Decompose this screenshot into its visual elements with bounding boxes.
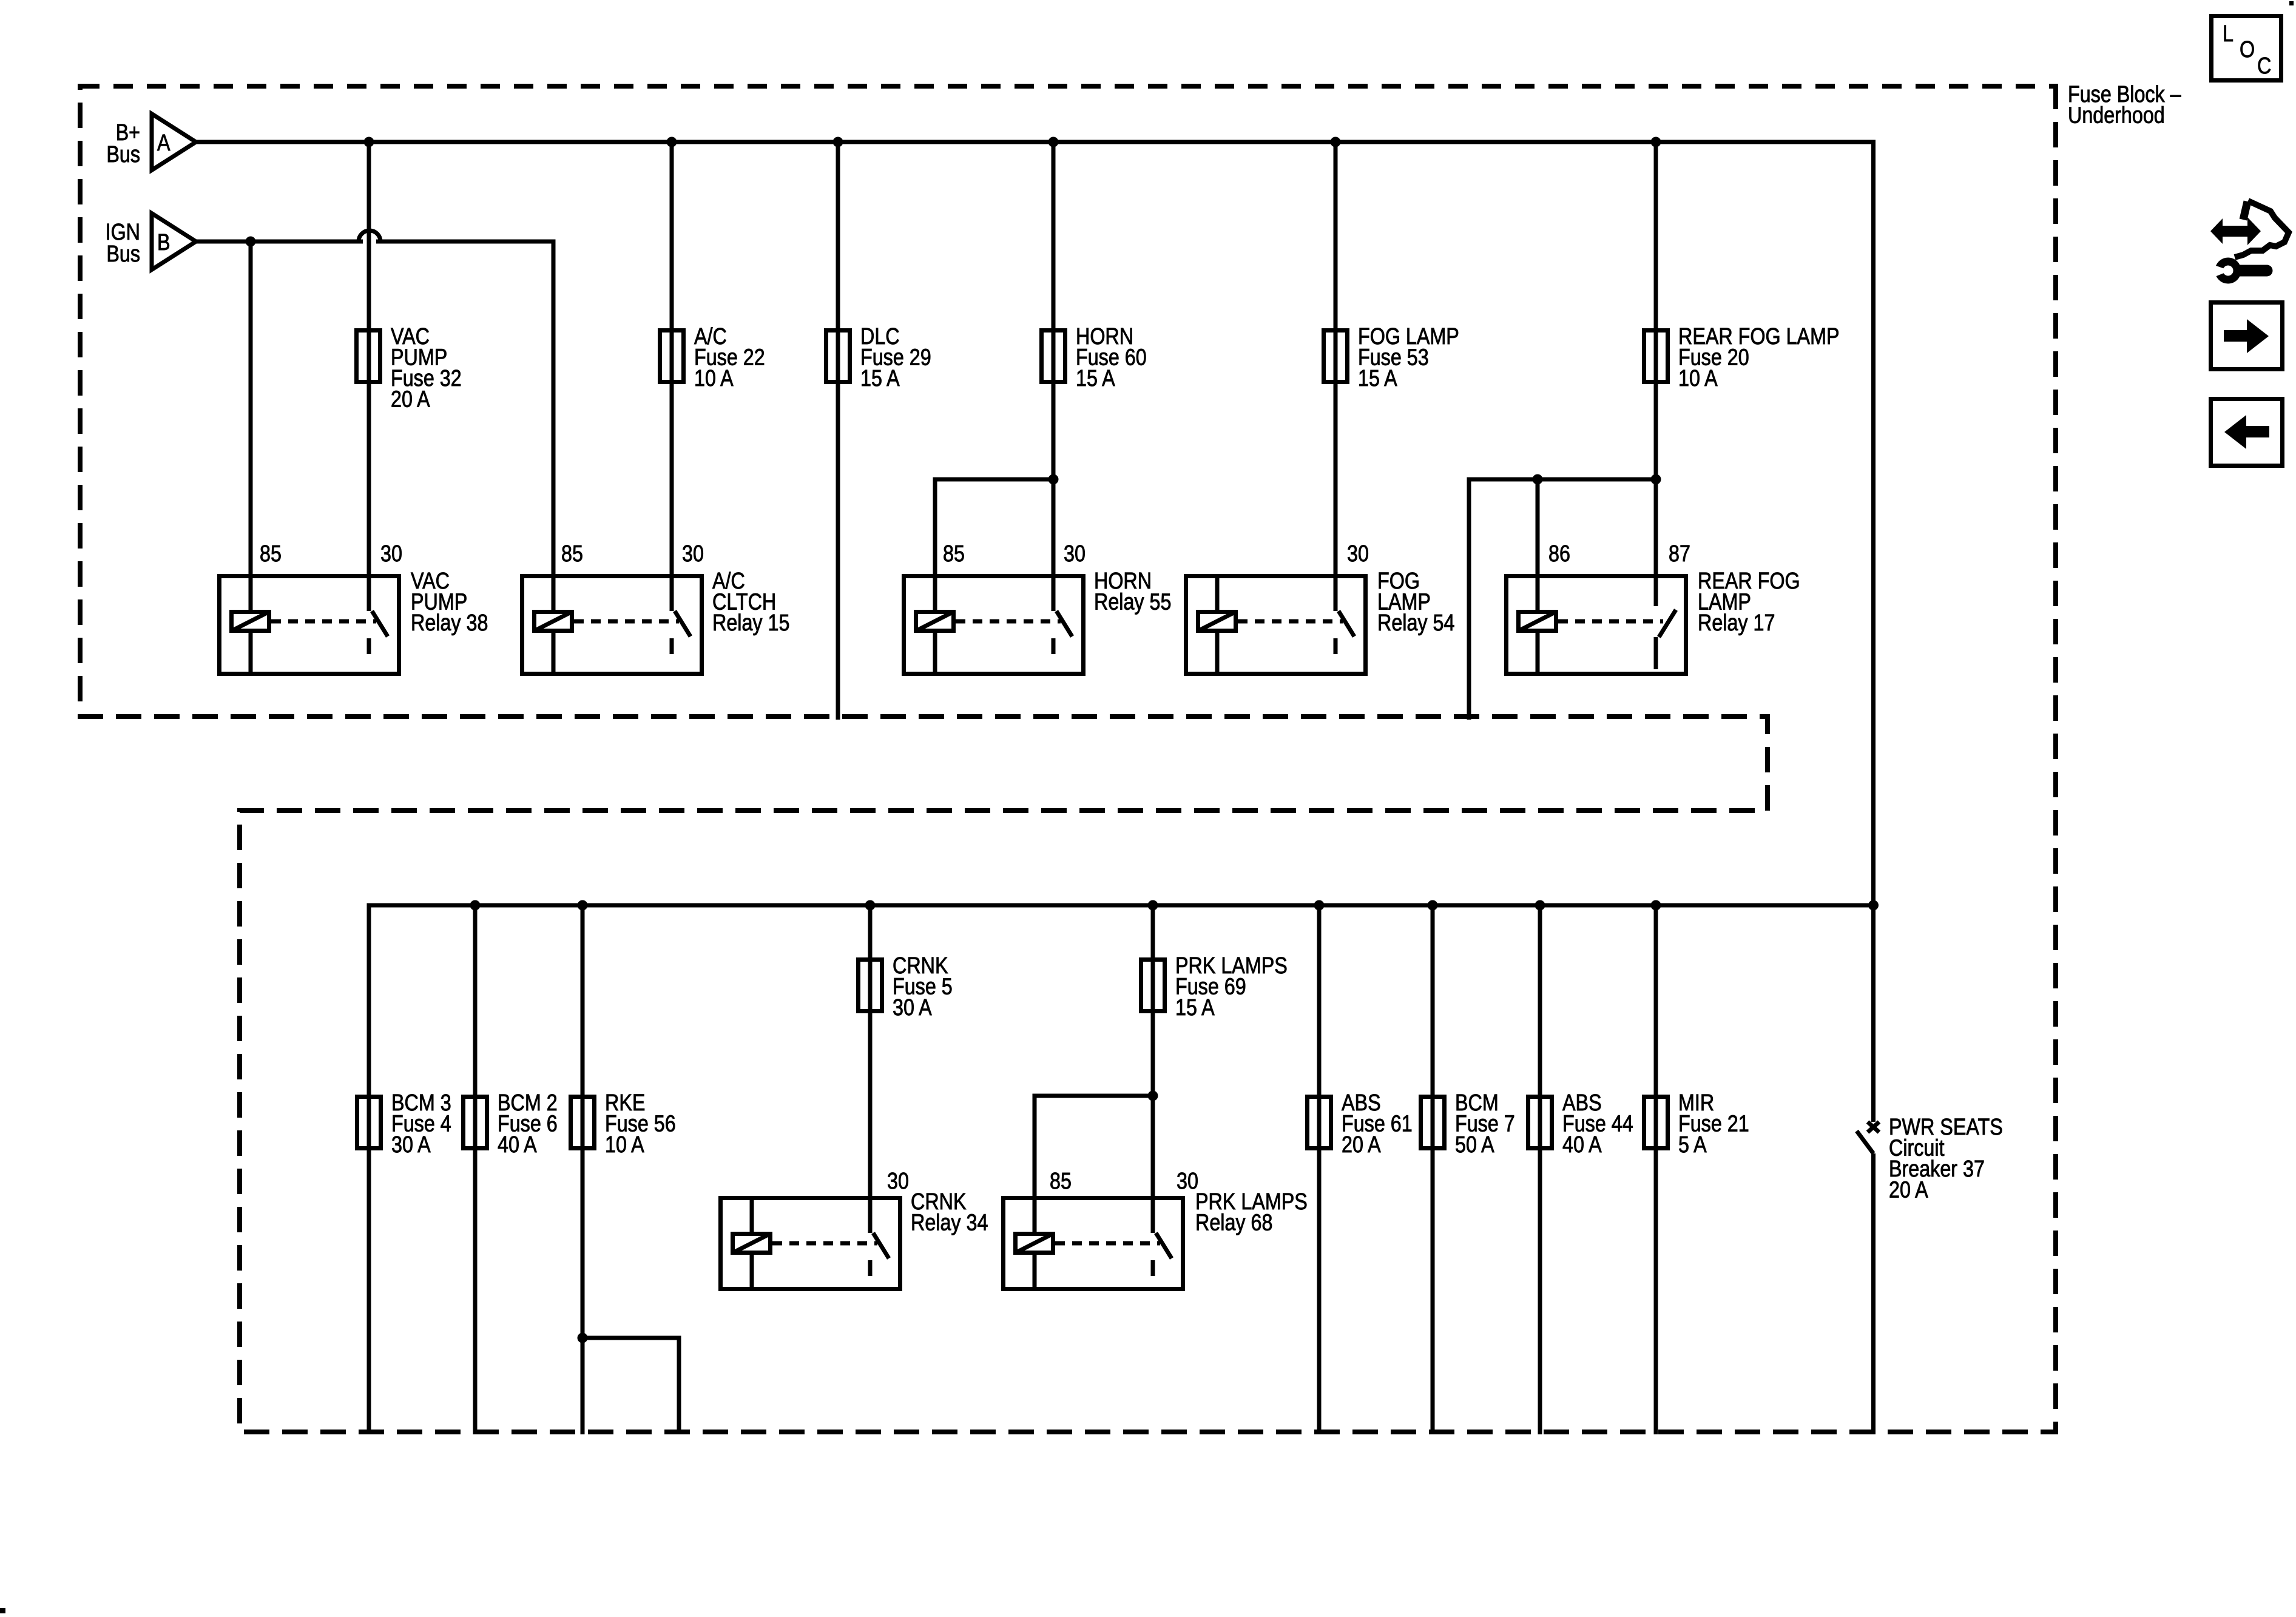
wire IGN branch down to VAC relay pin 85	[249, 241, 253, 574]
svg-text:50 A: 50 A	[1455, 1132, 1494, 1158]
fuse HORN Fuse 60	[1042, 331, 1065, 382]
wire BCM3 drop	[367, 905, 371, 1434]
breaker blade	[1857, 1131, 1874, 1153]
wire REAR FOG drop	[1654, 142, 1658, 574]
relay HORN Relay 55	[904, 576, 1084, 674]
fuse REAR FOG LAMP Fuse 20	[1644, 331, 1668, 382]
relay REAR FOG LAMP Relay 17	[1507, 576, 1686, 674]
wire B+ bus horizontal	[194, 140, 1876, 144]
wire B+ bus right vertical drop	[1871, 142, 1876, 908]
svg-text:B: B	[157, 230, 171, 255]
svg-text:Relay 15: Relay 15	[712, 610, 789, 636]
wire HORN drop	[1052, 142, 1056, 574]
fuse CRNK Fuse 5	[859, 960, 882, 1011]
relay FOG LAMP Relay 54	[1186, 576, 1366, 674]
svg-text:30: 30	[380, 541, 402, 567]
wire REAR FOG branch horizontal	[1467, 478, 1656, 482]
LOC box	[2212, 16, 2281, 81]
fuse ABS Fuse 44	[1528, 1097, 1552, 1149]
svg-text:40 A: 40 A	[498, 1132, 537, 1158]
svg-text:15 A: 15 A	[1175, 995, 1215, 1021]
fuse A/C Fuse 22	[660, 331, 684, 382]
junction dot CRNK	[865, 900, 876, 911]
svg-text:15 A: 15 A	[860, 366, 900, 391]
junction dot B+ DLC drop	[833, 137, 843, 147]
wire DLC drop	[836, 142, 840, 720]
wire breaker lower	[1871, 1153, 1876, 1434]
svg-text:A: A	[157, 130, 171, 156]
node B triangle (IGN Bus)	[152, 214, 196, 270]
fuse block underhood dashed border	[80, 84, 2056, 1432]
svg-text:Relay 17: Relay 17	[1698, 610, 1775, 636]
junction dot B+ VAC drop	[364, 137, 374, 147]
junction dot REAR FOG relay coil branch	[1533, 474, 1543, 485]
relay CRNK Relay 34	[721, 1198, 900, 1289]
svg-text:Relay 68: Relay 68	[1195, 1210, 1272, 1235]
wire PRK branch down to relay pin 85	[1033, 1096, 1037, 1196]
wire A/C drop	[670, 142, 674, 574]
svg-text:10 A: 10 A	[1678, 366, 1718, 391]
fuse MIR Fuse 21	[1644, 1097, 1668, 1149]
fuse VAC PUMP Fuse 32	[357, 331, 380, 382]
junction dot IGN-VAC relay branch	[246, 237, 256, 247]
wire RKE drop	[581, 905, 585, 1434]
svg-text:20 A: 20 A	[391, 387, 430, 412]
wire FOG drop	[1334, 142, 1338, 574]
svg-text:30: 30	[682, 541, 704, 567]
wire BCM2 drop	[473, 905, 478, 1434]
svg-text:15 A: 15 A	[1076, 366, 1115, 391]
wire PRK branch horizontal	[1033, 1094, 1153, 1098]
svg-text:86: 86	[1548, 541, 1570, 567]
svg-text:85: 85	[260, 541, 282, 567]
right arrow	[2224, 319, 2269, 353]
service icon wrench	[2219, 262, 2237, 280]
wire ABS44 drop	[1538, 905, 1542, 1434]
wire bottom B+ bus	[367, 903, 1876, 908]
fuse RKE Fuse 56	[571, 1097, 595, 1149]
svg-text:85: 85	[943, 541, 965, 567]
service icon hood outline	[2235, 201, 2289, 257]
svg-text:Relay 55: Relay 55	[1094, 589, 1171, 615]
relay A/C CLTCH Relay 15	[522, 576, 702, 674]
wire PRK drop	[1151, 905, 1155, 1196]
wire HORN branch horizontal	[933, 478, 1054, 482]
junction dot ABS44	[1535, 900, 1545, 911]
wire VAC drop	[367, 142, 371, 574]
fuse PRK LAMPS Fuse 69	[1141, 960, 1165, 1011]
breaker contact x-mark	[1868, 1122, 1879, 1132]
junction dot B+ A/C drop	[667, 137, 677, 147]
svg-text:30: 30	[1347, 541, 1369, 567]
left arrow box	[2211, 399, 2283, 466]
wire RKE branch down	[677, 1338, 681, 1434]
junction dot B+ FOG drop	[1331, 137, 1341, 147]
junction dot RKE branch	[578, 1333, 588, 1343]
junction dot HORN relay branch	[1048, 474, 1059, 485]
svg-text:30: 30	[1064, 541, 1086, 567]
svg-text:10 A: 10 A	[605, 1132, 644, 1158]
svg-text:O: O	[2240, 37, 2255, 62]
fuse BCM 2 Fuse 6	[464, 1097, 487, 1149]
svg-text:30 A: 30 A	[893, 995, 932, 1021]
wire REAR FOG branch down to dashed border	[1467, 479, 1471, 720]
svg-text:30 A: 30 A	[391, 1132, 431, 1158]
right arrow box	[2211, 303, 2283, 370]
corner artifact dot bottom left	[0, 1608, 5, 1613]
wire hop over VAC drop	[359, 231, 380, 241]
wire breaker feed	[1871, 905, 1876, 1122]
junction dot ABS61	[1314, 900, 1325, 911]
fuse BCM Fuse 7	[1421, 1097, 1445, 1149]
svg-text:L: L	[2223, 21, 2234, 47]
wire IGN bus right segment	[376, 240, 556, 244]
svg-text:40 A: 40 A	[1562, 1132, 1602, 1158]
wire CRNK drop	[868, 905, 873, 1196]
fuse DLC Fuse 29	[826, 331, 850, 382]
junction dot B+ HORN drop	[1048, 137, 1059, 147]
junction dot REAR FOG branch at fuse wire	[1651, 474, 1661, 485]
svg-text:Relay 54: Relay 54	[1377, 610, 1454, 636]
left arrow	[2224, 415, 2269, 449]
fuse block underhood dashed border top edge	[80, 84, 2056, 89]
svg-text:Bus: Bus	[106, 241, 140, 267]
wire IGN turn down to A/C relay pin 85	[552, 241, 556, 574]
junction dot PRK relay coil branch	[1148, 1091, 1158, 1101]
svg-text:85: 85	[1050, 1169, 1072, 1194]
svg-text:C: C	[2257, 53, 2271, 79]
junction dot BCM7	[1428, 900, 1438, 911]
fuse FOG LAMP Fuse 53	[1324, 331, 1348, 382]
junction dot bottom bus right corner	[1868, 900, 1879, 911]
wire MIR drop	[1654, 905, 1658, 1434]
svg-text:15 A: 15 A	[1358, 366, 1397, 391]
wire REAR FOG coil branch down to pin 86	[1536, 479, 1540, 574]
junction dot PRK LAMPS	[1148, 900, 1158, 911]
wire BCM7 drop	[1431, 905, 1435, 1434]
svg-text:5 A: 5 A	[1678, 1132, 1707, 1158]
svg-text:Bus: Bus	[106, 142, 140, 167]
wire RKE branch horizontal	[582, 1336, 681, 1340]
fuse BCM 3 Fuse 4	[357, 1097, 381, 1149]
svg-text:Underhood: Underhood	[2068, 103, 2165, 128]
svg-text:30: 30	[887, 1169, 909, 1194]
svg-text:10 A: 10 A	[694, 366, 734, 391]
junction dot RKE	[578, 900, 588, 911]
svg-text:87: 87	[1669, 541, 1690, 567]
svg-text:20 A: 20 A	[1342, 1132, 1381, 1158]
wire IGN bus left segment	[194, 240, 363, 244]
svg-text:Relay 38: Relay 38	[411, 610, 488, 636]
fuse ABS Fuse 61	[1308, 1097, 1331, 1149]
svg-text:20 A: 20 A	[1889, 1177, 1928, 1203]
corner artifact dot top right	[2289, 1, 2294, 5]
relay VAC PUMP Relay 38	[220, 576, 399, 674]
svg-text:Relay 34: Relay 34	[911, 1210, 988, 1235]
svg-text:85: 85	[561, 541, 583, 567]
junction dot B+ REAR FOG drop	[1651, 137, 1661, 147]
junction dot BCM2	[470, 900, 481, 911]
junction dot MIR	[1651, 900, 1661, 911]
wire ABS61 drop	[1317, 905, 1322, 1434]
service icon double arrow	[2210, 218, 2261, 245]
wire HORN branch down to relay pin 85	[933, 479, 937, 574]
relay PRK LAMPS Relay 68	[1004, 1198, 1183, 1289]
node A triangle (B+ Bus)	[152, 114, 196, 170]
